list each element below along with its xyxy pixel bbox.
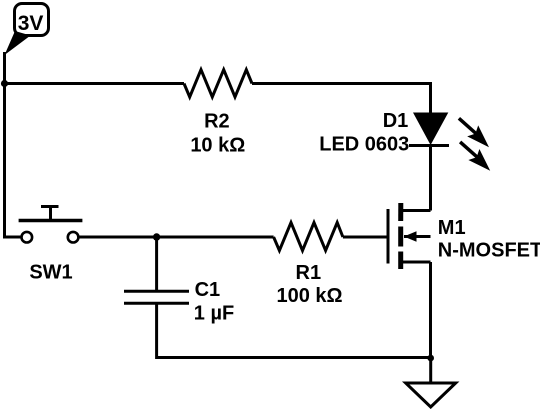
LED light arrow 1 xyxy=(459,118,489,147)
wire bottom rail xyxy=(157,356,431,359)
wire source to bottom junction xyxy=(429,262,432,358)
wire SW1 to R1 xyxy=(78,236,273,239)
transistor M1 xyxy=(388,203,540,269)
resistor R1 xyxy=(274,223,343,308)
ground xyxy=(406,383,456,407)
svg-text:N-MOSFET: N-MOSFET xyxy=(438,240,540,262)
capacitor C1 xyxy=(124,279,234,324)
LED light arrow 2 xyxy=(460,142,490,171)
wire top right segment xyxy=(252,84,431,114)
wire left rail xyxy=(3,52,6,239)
LED D1 xyxy=(319,110,449,155)
wire R1 to gate xyxy=(343,236,388,239)
power flag 3V xyxy=(5,4,49,56)
svg-text:LED 0603: LED 0603 xyxy=(319,134,409,156)
node top-left junction xyxy=(1,80,8,87)
svg-text:D1: D1 xyxy=(383,110,409,132)
wire junction to ground xyxy=(429,358,432,383)
node ground junction xyxy=(427,355,434,362)
svg-text:M1: M1 xyxy=(438,217,466,239)
switch SW1 xyxy=(5,207,83,284)
svg-text:1 µF: 1 µF xyxy=(194,302,234,324)
svg-text:3V: 3V xyxy=(18,12,44,35)
wire LED cathode to drain xyxy=(429,146,432,211)
resistor R2 xyxy=(184,70,252,157)
svg-text:R1: R1 xyxy=(296,262,322,284)
svg-text:R2: R2 xyxy=(204,110,230,132)
svg-text:SW1: SW1 xyxy=(29,261,72,283)
svg-text:C1: C1 xyxy=(195,279,221,301)
wire C1 to bottom rail xyxy=(155,305,158,360)
wire junction to C1 xyxy=(155,237,158,290)
svg-text:100 kΩ: 100 kΩ xyxy=(276,285,342,307)
node C1 junction xyxy=(153,233,160,240)
wire top left segment xyxy=(5,82,185,85)
svg-text:10 kΩ: 10 kΩ xyxy=(190,134,245,156)
